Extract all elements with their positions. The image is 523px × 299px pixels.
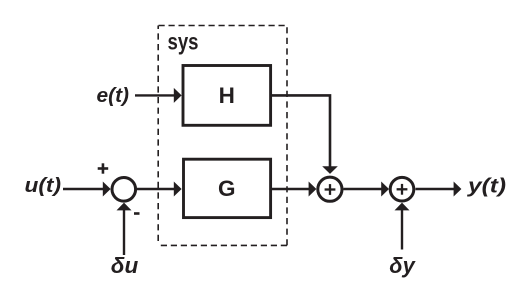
minus sign at S1 <box>134 212 140 215</box>
summing junction S2 with plus <box>318 177 342 201</box>
wire S1 to G with arrowhead <box>137 182 182 197</box>
svg-text:e(t): e(t) <box>97 85 130 107</box>
wire u(t) to summing junction S1 with arrowhead <box>63 182 111 197</box>
wire delta-u up into S1 with arrowhead <box>117 203 132 255</box>
svg-text:y(t): y(t) <box>467 176 507 198</box>
svg-text:sys: sys <box>168 28 199 54</box>
svg-text:u(t): u(t) <box>25 175 62 197</box>
dashed boundary box sys <box>158 26 287 246</box>
output wire S3 to y(t) with arrowhead <box>416 182 462 197</box>
summing junction S1 <box>112 178 136 202</box>
wire e(t) to H with arrowhead <box>135 88 182 103</box>
svg-text:G: G <box>218 176 236 201</box>
wire S2 to summing junction S3 with arrowhead <box>344 182 390 197</box>
svg-text:H: H <box>219 83 235 108</box>
label y(t) <box>467 176 507 198</box>
svg-text:δu: δu <box>111 253 139 278</box>
label delta-u <box>111 253 139 278</box>
wire H output to corner then down into S2 with arrowhead <box>272 95 338 173</box>
block G <box>184 159 271 217</box>
label u(t) <box>25 175 62 197</box>
label e(t) <box>97 85 130 107</box>
label sys <box>168 28 199 54</box>
label delta-y <box>389 253 416 278</box>
wire G to summing junction S2 with arrowhead <box>272 182 317 197</box>
plus sign at S1 <box>98 163 109 173</box>
summing junction S3 with plus <box>390 177 414 201</box>
wire delta-y up into S3 with arrowhead <box>395 203 410 250</box>
svg-text:δy: δy <box>389 253 416 278</box>
block H <box>183 66 271 126</box>
